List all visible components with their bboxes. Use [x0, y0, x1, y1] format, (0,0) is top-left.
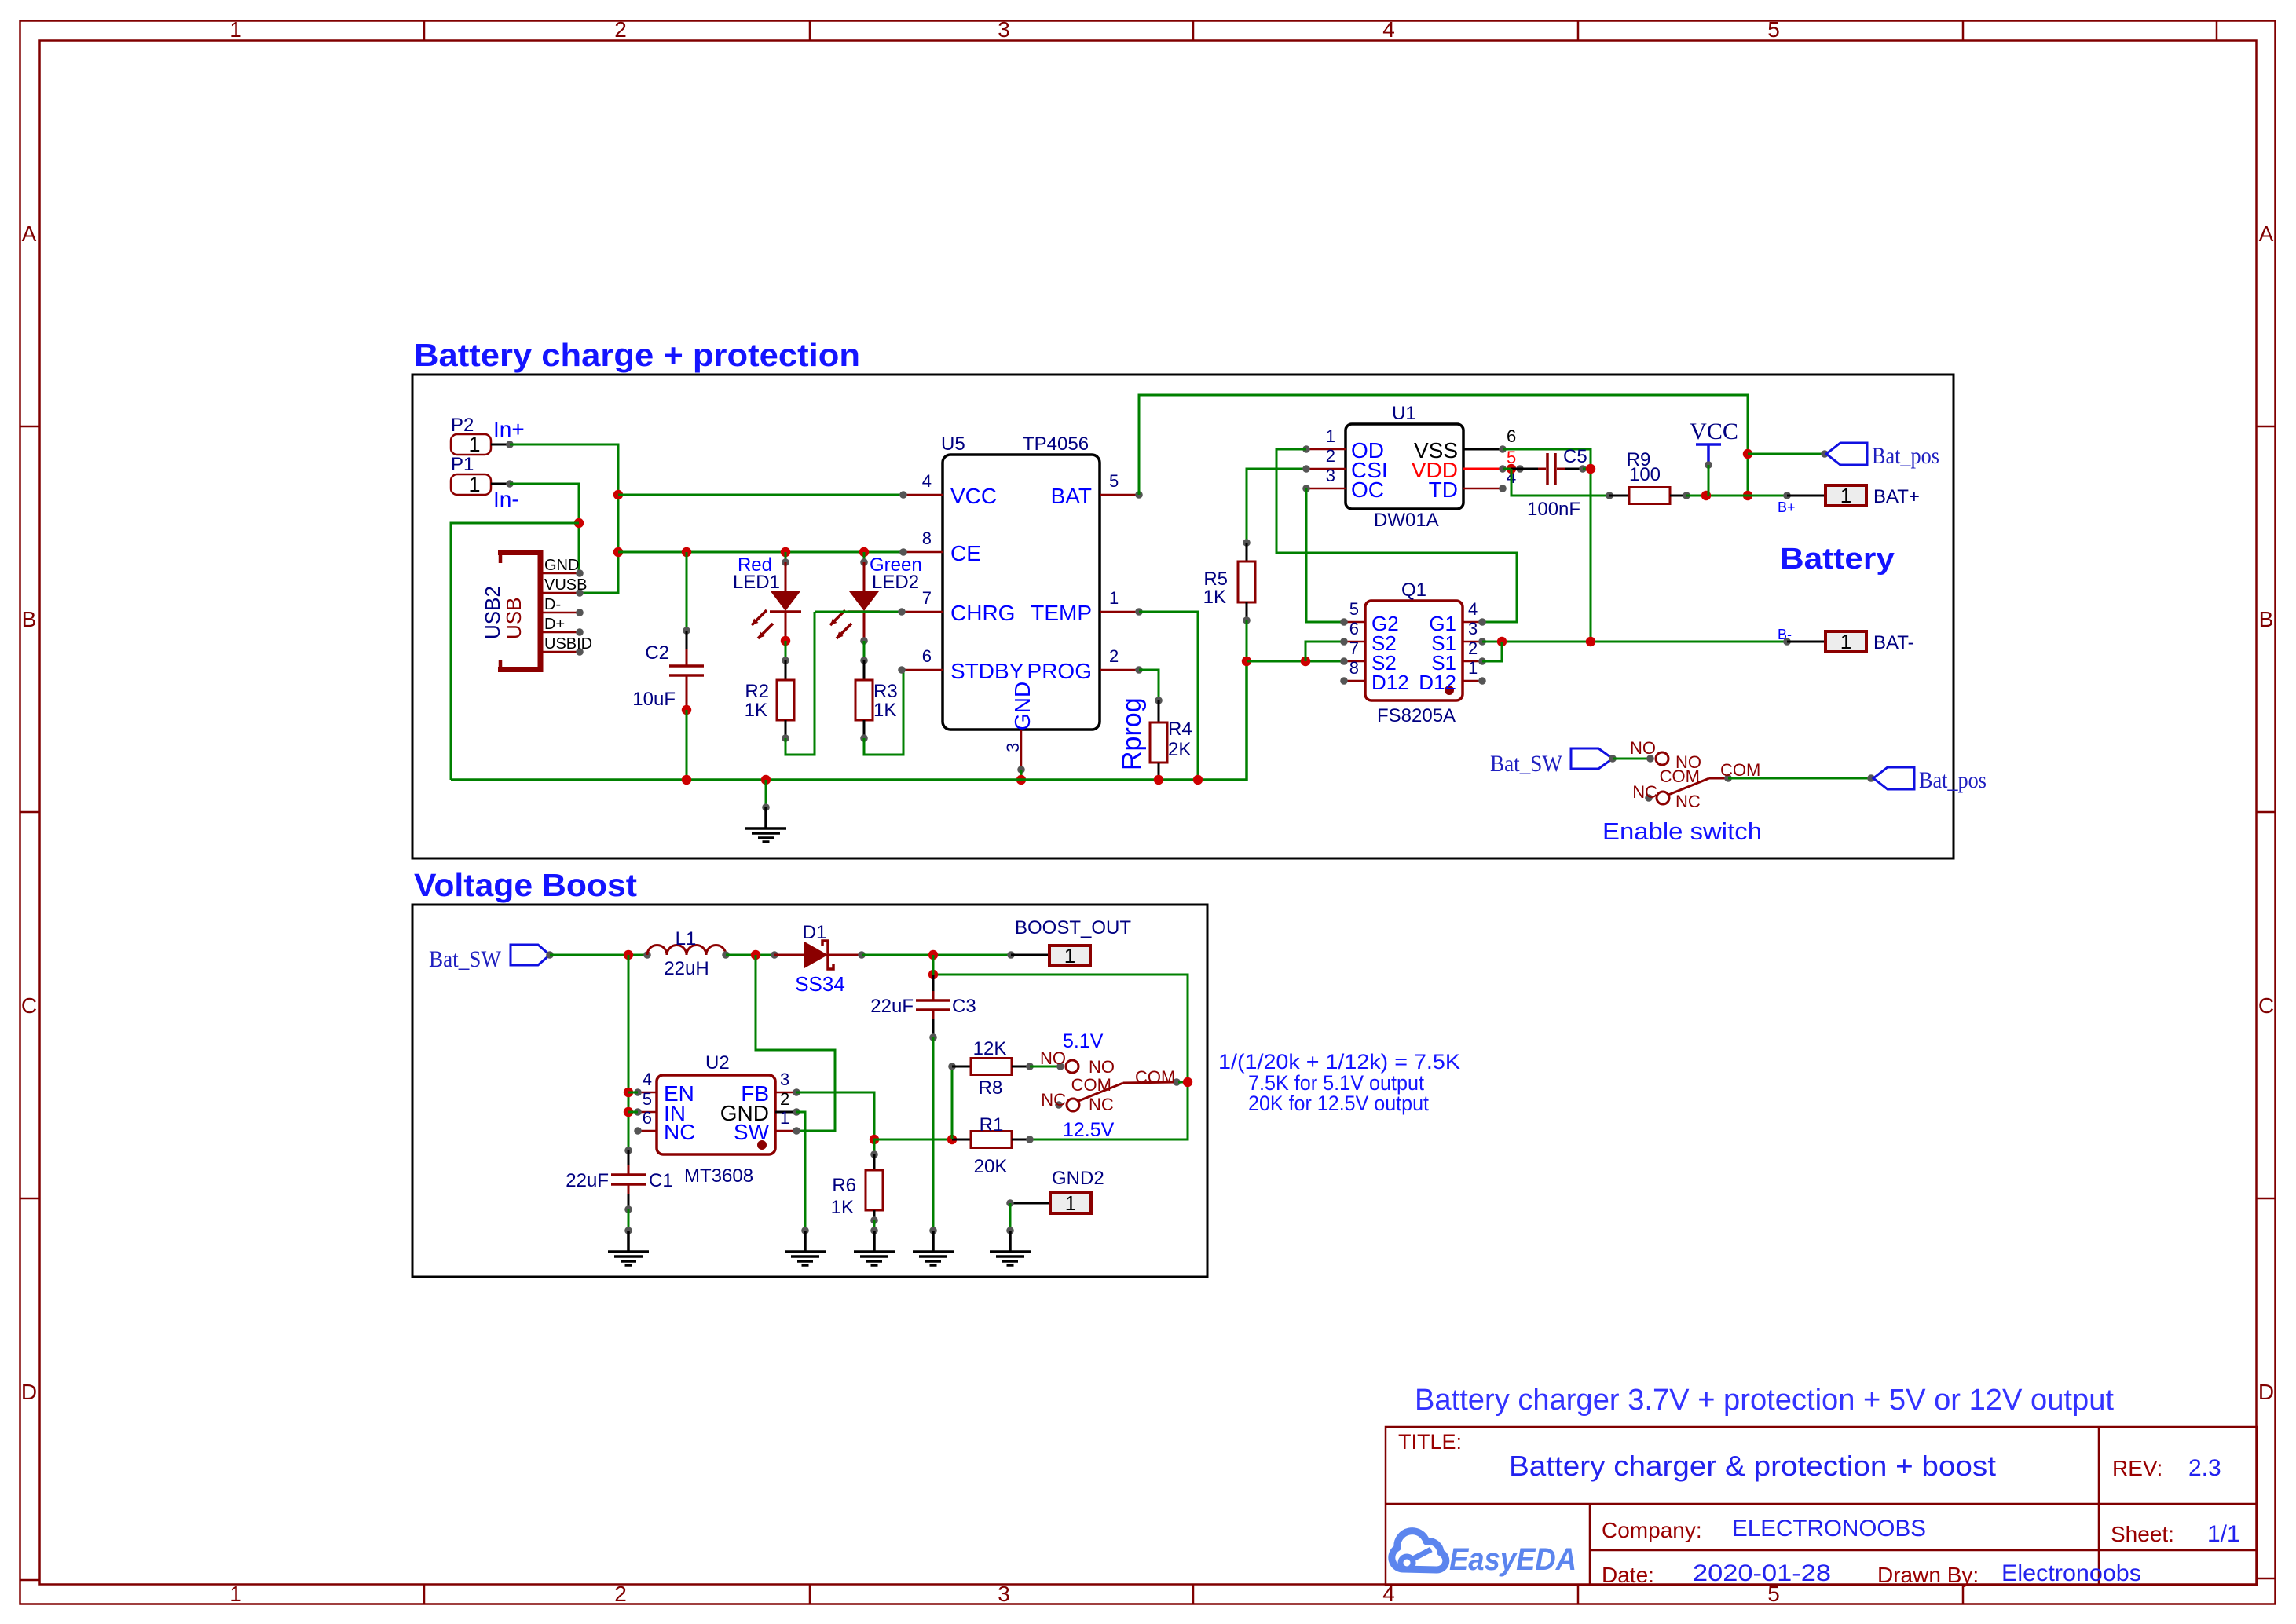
IC U2 pin 6 NC	[638, 1130, 657, 1132]
capacitor C3	[932, 975, 935, 991]
box Battery charge + protection	[412, 375, 1954, 858]
wire TEMP to rail	[1139, 612, 1198, 780]
connector P1	[451, 474, 491, 495]
wire R8 to switch NO	[1030, 1066, 1060, 1068]
wire S1 pin2 link	[1482, 642, 1502, 661]
IC U1 pin 3 OC	[1306, 488, 1346, 490]
svg-text:C: C	[21, 993, 37, 1018]
IC U2 pin 1 SW	[775, 1130, 796, 1132]
svg-text:U1: U1	[1392, 403, 1416, 424]
title block title row divider	[1386, 1503, 2257, 1505]
resistor R4	[1158, 700, 1160, 722]
svg-text:USB: USB	[502, 598, 525, 639]
ground symbol C3	[932, 1231, 935, 1252]
connector USB2 pins	[540, 572, 580, 575]
wire R6 to ground	[873, 1220, 876, 1231]
connector GND2	[1010, 1202, 1050, 1205]
junction output / C3	[928, 970, 938, 979]
wire C2 top	[686, 552, 688, 631]
IC Q1 pin 5 G2	[1344, 621, 1365, 624]
svg-text:Bat_SW: Bat_SW	[1490, 751, 1563, 777]
wire FB to divider	[796, 1092, 874, 1139]
svg-text:Battery charge + protection: Battery charge + protection	[414, 337, 860, 373]
svg-text:L1: L1	[676, 928, 697, 949]
switch SW2 COM pin	[1123, 1082, 1177, 1083]
svg-text:CHRG: CHRG	[950, 601, 1015, 625]
junction CE / LED1	[781, 547, 790, 557]
IC Q1 pin 3 S1	[1463, 641, 1482, 643]
svg-text:TP4056: TP4056	[1023, 433, 1089, 455]
svg-text:3: 3	[1326, 466, 1335, 485]
svg-text:1/(1/20k + 1/12k) = 7.5K: 1/(1/20k + 1/12k) = 7.5K	[1218, 1050, 1460, 1074]
title block rev column divider	[2098, 1427, 2100, 1585]
svg-text:A: A	[2259, 221, 2274, 246]
diode D1	[771, 951, 778, 959]
svg-text:GND: GND	[1010, 682, 1034, 730]
IC U5 pin 1 TEMP	[1100, 611, 1139, 613]
IC U1 pin 5 VDD	[1463, 468, 1503, 470]
svg-text:1K: 1K	[1203, 587, 1226, 608]
wire In- to ground rail	[451, 523, 579, 780]
junction CE / C2	[682, 547, 691, 557]
svg-text:Drawn By:: Drawn By:	[1877, 1563, 1979, 1587]
wire LED1 to R2	[785, 641, 787, 660]
connector BAT-	[1787, 641, 1825, 643]
svg-text:In-: In-	[493, 487, 519, 511]
wire output to COM and R1	[933, 975, 1188, 1139]
wire EN link	[628, 1092, 638, 1094]
wire OC to G2	[1306, 488, 1344, 622]
svg-text:D1: D1	[803, 922, 827, 943]
svg-text:22uF: 22uF	[566, 1170, 609, 1191]
svg-text:USB2: USB2	[481, 586, 504, 639]
junction S2 pins	[1301, 657, 1310, 666]
wire R8 to FB node	[951, 1066, 954, 1139]
junction CE / LED2	[859, 547, 869, 557]
svg-text:D-: D-	[544, 596, 561, 613]
svg-text:EasyEDA: EasyEDA	[1449, 1542, 1576, 1577]
resistor R1	[952, 1139, 971, 1141]
IC U5 pin 2 PROG	[1100, 669, 1139, 671]
svg-text:FS8205A: FS8205A	[1377, 705, 1456, 726]
ground symbol GND2	[1009, 1231, 1012, 1252]
IC U5 pin 7 CHRG	[902, 611, 943, 613]
IC U5 pin 8 CE	[903, 551, 943, 554]
svg-text:4: 4	[1468, 599, 1478, 619]
svg-text:8: 8	[922, 529, 932, 548]
wire C3 to ground	[932, 1037, 935, 1231]
LED LED1	[785, 552, 787, 562]
wire R3 to STDBY	[864, 670, 903, 755]
junction rail / R4	[1154, 775, 1163, 785]
wire CHRG net	[815, 611, 902, 613]
svg-text:C1: C1	[649, 1170, 673, 1191]
top band column ticks	[423, 20, 426, 40]
switch SW2 lever	[1078, 1083, 1123, 1101]
IC U2 body	[657, 1075, 775, 1154]
svg-text:C2: C2	[645, 642, 669, 664]
svg-text:BAT: BAT	[1051, 484, 1092, 508]
junction C5 / VSS	[1586, 464, 1595, 474]
svg-text:D12: D12	[1419, 671, 1456, 694]
svg-text:D12: D12	[1371, 671, 1409, 694]
wire C1 to ground	[628, 1209, 630, 1231]
svg-text:Battery charger & protection +: Battery charger & protection + boost	[1509, 1450, 1996, 1482]
switch SW1 NC terminal	[1645, 794, 1653, 802]
wire LED2 to R3	[860, 637, 868, 645]
title block company/date divider	[1590, 1549, 2257, 1552]
svg-text:B+: B+	[1778, 499, 1796, 515]
IC Q1 pin 1 D12	[1463, 680, 1482, 682]
svg-text:2020-01-28: 2020-01-28	[1693, 1560, 1831, 1586]
svg-text:NC: NC	[1041, 1090, 1066, 1110]
svg-text:B-: B-	[1778, 627, 1792, 642]
connector P1 pin	[491, 483, 510, 485]
svg-text:D: D	[2258, 1380, 2274, 1404]
svg-text:20K: 20K	[974, 1156, 1008, 1177]
svg-text:Date:: Date:	[1602, 1563, 1654, 1587]
title block logo cell divider	[1589, 1504, 1591, 1585]
svg-text:C3: C3	[952, 996, 976, 1017]
IC U5 pin 5 BAT	[1100, 494, 1139, 496]
wire S2 pin6 link	[1305, 642, 1344, 661]
junction rail / ground symbol	[761, 775, 771, 785]
switch SW1 lever	[1668, 778, 1709, 795]
svg-text:OC: OC	[1351, 477, 1384, 502]
wire R9 to BAT+	[1686, 495, 1787, 497]
switch SW1 NO terminal	[1656, 752, 1668, 765]
svg-text:4: 4	[1382, 17, 1395, 42]
svg-text:ELECTRONOOBS: ELECTRONOOBS	[1732, 1516, 1926, 1542]
svg-text:NO: NO	[1630, 738, 1656, 758]
title block border	[1386, 1427, 2257, 1585]
svg-text:2: 2	[780, 1089, 789, 1109]
svg-text:1/1: 1/1	[2207, 1521, 2240, 1547]
junction Bat_pos branch	[1743, 449, 1752, 459]
svg-text:3: 3	[1003, 743, 1023, 752]
junction S1 pin2 branch	[1497, 637, 1507, 646]
svg-text:MT3608: MT3608	[684, 1165, 753, 1187]
svg-text:USBID: USBID	[544, 635, 592, 653]
svg-text:Voltage Boost: Voltage Boost	[414, 867, 637, 903]
svg-text:U2: U2	[705, 1052, 730, 1074]
ground symbol U2	[804, 1231, 807, 1252]
svg-text:P1: P1	[451, 454, 474, 475]
wire CSI to R5	[1247, 469, 1306, 543]
svg-text:3: 3	[998, 17, 1010, 42]
switch SW1 COM pin	[1709, 777, 1728, 780]
netflag Bat_pos bottom	[1873, 767, 1914, 789]
IC Q1 pin 6 S2	[1344, 641, 1365, 643]
svg-text:5.1V: 5.1V	[1063, 1030, 1104, 1052]
svg-text:TITLE:: TITLE:	[1398, 1430, 1462, 1454]
svg-text:A: A	[22, 221, 37, 246]
svg-text:10uF: 10uF	[632, 689, 676, 710]
junction EN	[624, 1088, 633, 1097]
svg-text:1: 1	[1065, 1191, 1076, 1215]
svg-text:3: 3	[998, 1582, 1010, 1606]
wire PROG to R4	[1139, 670, 1159, 700]
svg-text:7: 7	[922, 588, 932, 608]
IC U1 body	[1346, 424, 1463, 509]
resistor R5	[1246, 543, 1248, 561]
svg-text:R4: R4	[1168, 719, 1192, 740]
IC U2 pin 2 GND	[775, 1111, 796, 1114]
svg-text:1K: 1K	[745, 700, 767, 721]
svg-text:5: 5	[1349, 599, 1359, 619]
svg-text:2: 2	[1109, 646, 1119, 666]
junction output node	[928, 950, 938, 960]
svg-text:SW: SW	[734, 1120, 770, 1144]
wire C2 to ground rail	[686, 710, 688, 780]
svg-text:1: 1	[1840, 484, 1851, 507]
junction rail / C2	[682, 775, 691, 785]
svg-text:2K: 2K	[1168, 739, 1191, 760]
svg-text:Battery charger 3.7V + protect: Battery charger 3.7V + protection + 5V o…	[1415, 1384, 2114, 1417]
IC Q1 pin 2 S1	[1463, 660, 1482, 663]
resistor R3	[863, 660, 866, 680]
svg-text:Company:: Company:	[1602, 1518, 1702, 1542]
svg-text:NC: NC	[1632, 782, 1657, 802]
svg-text:VUSB: VUSB	[544, 576, 587, 594]
wire BAT to Bat_pos/VCC	[1139, 395, 1748, 496]
ground symbol box1	[764, 807, 767, 828]
svg-text:SS34: SS34	[795, 972, 845, 996]
svg-text:2: 2	[1326, 446, 1335, 466]
IC U5 pin 6 STDBY	[902, 669, 943, 671]
wire R6 top	[873, 1139, 876, 1154]
svg-text:LED1: LED1	[733, 572, 780, 593]
svg-text:REV:: REV:	[2112, 1456, 2162, 1480]
wire S2 row	[1247, 660, 1344, 663]
IC U5 body	[943, 455, 1100, 730]
wire Bat_SW to L1	[550, 954, 647, 956]
power flag VCC	[1696, 443, 1721, 446]
junction SW node	[751, 950, 760, 960]
junction COM / output	[1183, 1077, 1192, 1087]
svg-text:7: 7	[1349, 638, 1359, 658]
svg-text:100: 100	[1629, 464, 1661, 485]
svg-text:COM: COM	[1135, 1067, 1175, 1087]
IC U1 pin 6 VSS	[1463, 448, 1503, 451]
svg-text:VCC: VCC	[950, 484, 997, 508]
svg-text:1: 1	[468, 473, 480, 496]
right band row ticks	[2257, 426, 2276, 428]
bottom band column ticks	[423, 1585, 426, 1604]
IC U2 pin 5 IN	[638, 1111, 657, 1114]
svg-text:5: 5	[1109, 471, 1119, 491]
wire Bat_SW to switch NO	[1613, 758, 1650, 760]
svg-text:B: B	[2259, 607, 2274, 631]
svg-text:CE: CE	[950, 541, 981, 565]
svg-text:Bat_pos: Bat_pos	[1872, 443, 1939, 469]
wire OD to G1 loop	[1276, 449, 1517, 622]
svg-text:3: 3	[1468, 619, 1478, 638]
capacitor C5	[1516, 465, 1524, 473]
svg-text:Battery: Battery	[1780, 543, 1895, 576]
svg-text:6: 6	[922, 646, 932, 666]
svg-text:Rprog: Rprog	[1117, 697, 1147, 770]
svg-text:20K for 12.5V output: 20K for 12.5V output	[1248, 1092, 1429, 1115]
svg-text:2: 2	[614, 17, 627, 42]
svg-text:COM: COM	[1071, 1075, 1111, 1095]
EasyEDA logo	[1392, 1531, 1446, 1570]
IC U5 pin 3 GND	[1020, 730, 1023, 770]
svg-text:4: 4	[922, 471, 932, 491]
wire CE net	[618, 551, 903, 554]
svg-text:1: 1	[780, 1108, 789, 1128]
IC Q1 pin 8 D12	[1344, 680, 1365, 682]
junction VCC flag	[1701, 491, 1711, 500]
connector P2 pin	[491, 444, 510, 446]
svg-text:R6: R6	[832, 1175, 856, 1196]
svg-text:BAT-: BAT-	[1873, 632, 1914, 653]
wire SW net	[756, 955, 835, 1131]
wire input rail to C1	[628, 955, 630, 1150]
LED LED2	[863, 552, 866, 562]
svg-text:6: 6	[643, 1108, 652, 1128]
svg-text:R2: R2	[745, 681, 769, 702]
junction IN	[624, 1107, 633, 1117]
wire IN link	[628, 1111, 638, 1114]
junction In+ / VCC branch	[613, 490, 623, 499]
svg-text:Enable switch: Enable switch	[1602, 817, 1762, 845]
junction FB / R6 / R1	[870, 1135, 879, 1144]
svg-text:12.5V: 12.5V	[1063, 1119, 1115, 1141]
wire ground rail	[451, 661, 1247, 780]
capacitor C1	[624, 1147, 632, 1154]
ground symbol C1	[627, 1231, 630, 1252]
svg-text:12K: 12K	[973, 1038, 1007, 1059]
connector BAT+	[1787, 495, 1825, 497]
svg-text:C5: C5	[1563, 446, 1587, 467]
svg-text:1: 1	[229, 1582, 242, 1606]
svg-text:D: D	[21, 1380, 37, 1404]
svg-text:1: 1	[1840, 630, 1851, 653]
svg-text:6: 6	[1349, 619, 1359, 638]
wire R2 to CHRG	[785, 612, 815, 755]
svg-text:2.3: 2.3	[2188, 1455, 2221, 1481]
junction S2 row / R5 / rail	[1242, 657, 1251, 666]
svg-text:VCC: VCC	[1690, 419, 1738, 444]
svg-text:R3: R3	[873, 681, 898, 702]
IC Q1 pin 7 S2	[1344, 660, 1365, 663]
ground symbol R6	[873, 1231, 876, 1252]
svg-text:U5: U5	[941, 433, 965, 455]
svg-text:LED2: LED2	[872, 572, 919, 593]
wire D1 to BOOST_OUT	[862, 954, 1011, 956]
junction U5 GND / rail	[1016, 775, 1026, 785]
switch SW2 NC terminal	[1055, 1101, 1063, 1109]
IC Q1 body	[1365, 601, 1463, 700]
IC U1 pin 1 OD	[1306, 448, 1346, 451]
switch SW2 NO terminal	[1066, 1060, 1078, 1073]
svg-text:8: 8	[1349, 658, 1359, 678]
junction BAT / R9 row	[1743, 491, 1752, 500]
wire L1 to D1	[726, 954, 774, 956]
IC U1 pin 4 TD	[1463, 488, 1503, 490]
wire COM to output	[1178, 1081, 1188, 1084]
svg-text:In+: In+	[493, 417, 525, 441]
svg-text:NC: NC	[1675, 792, 1701, 811]
svg-text:22uF: 22uF	[870, 996, 914, 1017]
svg-text:TEMP: TEMP	[1031, 601, 1092, 625]
IC U1 pin 2 CSI	[1306, 468, 1346, 470]
resistor R8	[952, 1066, 971, 1068]
wire U5 GND to rail	[1020, 770, 1023, 780]
junction C2 bottom	[682, 705, 691, 715]
wire to Bat_pos flag	[1748, 453, 1825, 455]
resistor R9	[1609, 495, 1629, 497]
IC U2 pin 4 EN	[638, 1092, 657, 1094]
svg-text:1: 1	[1326, 426, 1335, 446]
IC Q1 pin 4 G1	[1463, 621, 1482, 624]
svg-text:DW01A: DW01A	[1374, 510, 1439, 531]
svg-text:NO: NO	[1089, 1057, 1115, 1077]
IC U2 pin 3 FB	[775, 1092, 796, 1094]
svg-text:R8: R8	[979, 1077, 1003, 1099]
junction input node	[624, 950, 633, 960]
junction S1 / VSS	[1586, 637, 1595, 646]
junction In- node	[574, 518, 584, 528]
junction rail / TEMP	[1193, 775, 1203, 785]
svg-text:TD: TD	[1429, 477, 1458, 502]
svg-text:B: B	[22, 607, 37, 631]
svg-text:STDBY: STDBY	[950, 659, 1024, 683]
svg-text:BAT+: BAT+	[1873, 486, 1920, 507]
svg-text:PROG: PROG	[1027, 659, 1092, 683]
wire In- from P1 to USB GND	[510, 484, 579, 573]
svg-text:NC: NC	[1089, 1095, 1114, 1114]
svg-text:BOOST_OUT: BOOST_OUT	[1015, 917, 1131, 938]
svg-text:NC: NC	[664, 1120, 695, 1144]
wire FB row	[873, 1139, 952, 1141]
wire VSS to S1 row	[1503, 449, 1591, 642]
svg-text:1: 1	[1468, 658, 1478, 678]
svg-text:1K: 1K	[873, 700, 896, 721]
junction VDD node	[1507, 464, 1516, 474]
junction In+ / CE branch	[613, 547, 623, 557]
wire In+ from P2 down to VUSB	[510, 444, 618, 593]
IC U5 pin 4 VCC	[903, 494, 943, 496]
wire VCC flag to rail	[1708, 465, 1710, 496]
wire output node to C3	[932, 955, 935, 975]
capacitor C2	[686, 631, 688, 649]
connector BOOST_OUT	[1011, 954, 1049, 956]
svg-text:1: 1	[229, 17, 242, 42]
connector USB2 body	[538, 550, 544, 672]
svg-text:2: 2	[1468, 638, 1478, 658]
wire switch COM to Bat_pos	[1728, 777, 1871, 780]
wire GND2 to ground	[1009, 1203, 1012, 1231]
svg-text:5: 5	[643, 1089, 652, 1109]
wire U2 GND to ground	[796, 1112, 805, 1231]
left band row ticks	[20, 426, 39, 428]
svg-text:1: 1	[468, 433, 480, 456]
netflag Bat_pos top	[1826, 443, 1867, 465]
svg-text:100nF: 100nF	[1527, 499, 1580, 520]
svg-text:1K: 1K	[831, 1197, 854, 1218]
svg-text:R1: R1	[980, 1114, 1004, 1136]
svg-text:COM: COM	[1660, 766, 1700, 786]
svg-text:Q1: Q1	[1401, 580, 1426, 601]
connector P2	[451, 434, 491, 455]
svg-text:Bat_pos: Bat_pos	[1919, 767, 1987, 793]
svg-text:GND: GND	[544, 557, 579, 574]
svg-text:2: 2	[614, 1582, 627, 1606]
svg-text:Sheet:: Sheet:	[2111, 1522, 2174, 1546]
wire VDD to R9	[1511, 469, 1609, 496]
